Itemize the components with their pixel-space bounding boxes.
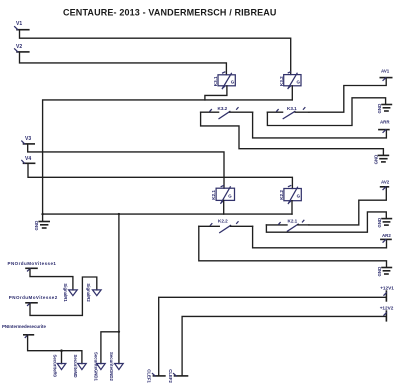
wire branch SecuriteGND1 bbox=[101, 332, 119, 364]
relay coil K2.1 bbox=[211, 186, 235, 205]
svg-text:SecuriteGND2: SecuriteGND2 bbox=[109, 352, 114, 382]
wire PNIntermedesecurite to arrows bbox=[28, 336, 82, 364]
svg-text:CLEF2: CLEF2 bbox=[168, 369, 173, 383]
svg-text:V3: V3 bbox=[25, 136, 31, 142]
connector V3 bbox=[22, 136, 34, 144]
svg-text:V4: V4 bbox=[25, 156, 31, 162]
arrow SecuriteND bbox=[73, 355, 86, 378]
connector +12V1 bbox=[380, 286, 394, 301]
connector PNOrduMoVitesse2 bbox=[9, 295, 58, 306]
svg-text:G: G bbox=[297, 79, 301, 84]
connector AV1 bbox=[380, 69, 391, 81]
connector AV2 bbox=[381, 180, 390, 190]
node securite junction bbox=[60, 349, 63, 352]
svg-text:K2.1: K2.1 bbox=[211, 190, 216, 200]
wire coil K3.1 bottom to rail bbox=[205, 86, 227, 100]
svg-text:K3.1: K3.1 bbox=[213, 76, 218, 86]
ground GND2 bbox=[374, 155, 389, 165]
contact K2.1 (row2 right) bbox=[266, 219, 309, 232]
wire coil rail 2 bbox=[43, 213, 292, 215]
svg-text:AV1: AV1 bbox=[381, 69, 390, 74]
ground GND1 bbox=[377, 104, 391, 114]
svg-text:CLEF1: CLEF1 bbox=[146, 369, 151, 383]
wire branch SecuriteR0 bbox=[61, 351, 63, 364]
svg-text:SignalR2: SignalR2 bbox=[86, 283, 91, 302]
svg-text:G: G bbox=[228, 194, 232, 199]
connector PNOrduMoVitesse1 bbox=[8, 261, 57, 271]
wire PNOrduMoVitesse2 to SignalR2 bbox=[30, 277, 97, 315]
wire contact K2.1 left to GND3 bbox=[266, 212, 386, 232]
connector CLEF1 bbox=[146, 369, 165, 383]
node rail2 left bbox=[41, 213, 43, 215]
svg-text:V2: V2 bbox=[16, 44, 22, 50]
relay coil K2.2 bbox=[279, 186, 301, 205]
relay coil K3.2 bbox=[279, 72, 301, 90]
svg-text:K3.1: K3.1 bbox=[287, 106, 297, 111]
svg-text:K2.1: K2.1 bbox=[288, 219, 298, 224]
svg-text:PNOrduMoVitesse1: PNOrduMoVitesse1 bbox=[8, 261, 57, 266]
wire contact K2.2 left to GND4 bbox=[199, 226, 387, 267]
wire coil K2.2 bottom bbox=[291, 201, 293, 214]
wire contact K3.1 left to GND1 bbox=[267, 98, 385, 126]
arrow SignalR2 bbox=[86, 283, 101, 302]
svg-text:CENTAURE- 2013 - VANDERMERSCH: CENTAURE- 2013 - VANDERMERSCH / RIBREAU bbox=[63, 8, 277, 18]
svg-text:K3.2: K3.2 bbox=[218, 106, 228, 111]
wire V1 to coil K3.2 bbox=[20, 31, 291, 75]
svg-text:PNIntermedesecurite: PNIntermedesecurite bbox=[2, 324, 46, 329]
svg-text:G: G bbox=[231, 80, 235, 85]
wire rail2 to SecuriteGND arrows bbox=[118, 214, 120, 364]
ground GND5 bbox=[34, 214, 49, 230]
svg-text:GND: GND bbox=[377, 218, 382, 228]
ground GND3 bbox=[377, 218, 391, 228]
arrow SecuriteR0 bbox=[53, 355, 66, 378]
wire coil K3.2 bottom to rail bbox=[291, 86, 293, 100]
svg-text:SignalR1: SignalR1 bbox=[63, 283, 68, 302]
connector CLEF2 bbox=[168, 369, 187, 383]
arrow SignalR1 bbox=[63, 283, 77, 302]
svg-text:SecuriteR0: SecuriteR0 bbox=[53, 355, 58, 378]
wire contact K3.1 right to AV1 bbox=[309, 78, 386, 112]
ground GND4 bbox=[377, 267, 391, 277]
wire PNOrduMoVitesse1 to SignalR1 bbox=[30, 269, 73, 290]
wire V4 to coil K2.2 bbox=[28, 164, 292, 188]
svg-text:+12V1: +12V1 bbox=[380, 286, 394, 291]
svg-text:GND: GND bbox=[34, 221, 39, 231]
svg-text:K2.2: K2.2 bbox=[279, 190, 284, 200]
connector AR2 bbox=[381, 233, 391, 242]
svg-text:K2.2: K2.2 bbox=[218, 218, 228, 223]
connector V2 bbox=[15, 44, 29, 52]
arrow SecuriteGND1 bbox=[94, 352, 106, 382]
contact K3.2 (row1 left) bbox=[201, 106, 253, 119]
wire contact K2.2 right to AR2 bbox=[253, 226, 387, 248]
connector ARR bbox=[379, 120, 390, 133]
svg-text:GND: GND bbox=[377, 104, 382, 114]
wire +12V2 to CLEF2 bbox=[182, 316, 386, 375]
node rail2 drop bbox=[118, 213, 120, 215]
connector +12V2 bbox=[380, 306, 394, 321]
wire coil common rail bbox=[43, 100, 293, 214]
svg-text:GND: GND bbox=[377, 267, 382, 277]
contact K2.2 (row2 left) bbox=[199, 218, 253, 232]
relay coil K3.1 bbox=[213, 72, 236, 89]
svg-text:PNOrduMoVitesse2: PNOrduMoVitesse2 bbox=[9, 295, 58, 300]
wire contact K2.1 right to AV2 bbox=[309, 188, 386, 225]
wire +12V1 to CLEF1 bbox=[159, 297, 386, 375]
connector PNIntermedesecurite bbox=[2, 324, 46, 337]
svg-text:ARR: ARR bbox=[380, 120, 390, 125]
node gnd branch bbox=[118, 331, 120, 333]
wire contact K3.2 left to GND2 bbox=[201, 112, 384, 155]
connector V4 bbox=[22, 156, 35, 163]
svg-text:AR2: AR2 bbox=[382, 233, 391, 238]
wire V3 to coil K2.1 bbox=[28, 145, 224, 189]
contact K3.1 (row1 right) bbox=[267, 106, 309, 119]
svg-text:GND: GND bbox=[374, 155, 379, 165]
wire contact K3.2 right to ARR bbox=[253, 112, 387, 138]
connector V1 bbox=[15, 21, 29, 30]
wire coil K2.1 bottom bbox=[223, 200, 225, 214]
svg-text:G: G bbox=[297, 194, 301, 199]
wire V2 to coil K3.1 bbox=[20, 53, 227, 75]
svg-text:SecuriteND: SecuriteND bbox=[73, 355, 78, 378]
svg-text:+12V2: +12V2 bbox=[380, 306, 394, 311]
arrow SecuriteGND2 bbox=[109, 352, 123, 382]
svg-text:SecuriteGND1: SecuriteGND1 bbox=[94, 352, 99, 382]
svg-text:AV2: AV2 bbox=[381, 180, 390, 185]
svg-text:V1: V1 bbox=[16, 21, 22, 27]
